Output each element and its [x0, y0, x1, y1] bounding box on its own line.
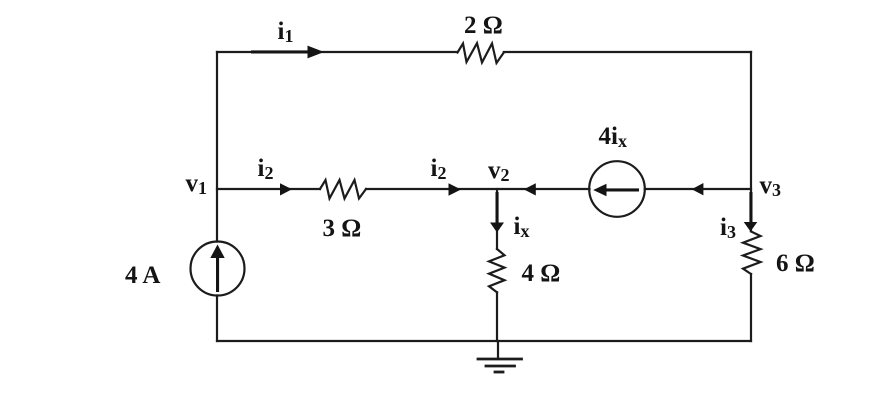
wire node v1 to 3-ohm resistor — [217, 188, 320, 190]
svg-text:i3: i3 — [720, 214, 736, 242]
wire 3-ohm to node v2 and on to source — [366, 188, 590, 190]
wire 6-ohm to bottom-right corner — [750, 274, 752, 341]
svg-text:4 Ω: 4 Ω — [522, 260, 561, 287]
independent current source 4A circle — [191, 242, 245, 296]
wire 4A source to bottom-left corner — [216, 296, 218, 342]
current arrow into v3 (points left) — [692, 183, 704, 195]
wire 2-ohm to top-right corner — [504, 51, 751, 53]
svg-text:6 Ω: 6 Ω — [776, 250, 815, 277]
svg-text:v1: v1 — [186, 170, 208, 198]
wire bottom horizontal — [217, 340, 751, 342]
svg-text:4ix: 4ix — [599, 123, 627, 151]
resistor R 3ohm zigzag — [320, 180, 366, 199]
resistor R 6ohm zigzag vertical — [743, 232, 761, 275]
ground stub — [497, 341, 499, 359]
arrow inside dependent source (points left) — [593, 184, 639, 197]
svg-text:i1: i1 — [278, 18, 294, 46]
svg-text:ix: ix — [514, 213, 530, 241]
wire left vertical top — [216, 52, 218, 242]
current arrow i2 into node v1 wire — [280, 183, 292, 195]
svg-text:4 A: 4 A — [125, 262, 160, 289]
dependent current source 4ix circle — [589, 161, 645, 217]
svg-text:i2: i2 — [258, 155, 274, 183]
wire source to node v3 — [645, 188, 751, 190]
svg-text:2 Ω: 2 Ω — [464, 12, 503, 39]
wire top-left to 2-ohm resistor — [217, 51, 458, 53]
arrow inside 4A source (points up) — [210, 245, 224, 293]
current arrow i2 after 3-ohm — [449, 183, 462, 195]
svg-text:v2: v2 — [488, 157, 510, 185]
current arrow i3 downward on right wire — [744, 192, 758, 232]
wire right vertical top — [750, 52, 752, 231]
current arrow i1 on top wire — [251, 46, 324, 59]
ground bars — [478, 359, 522, 372]
resistor R 2ohm zigzag — [458, 43, 504, 63]
current arrow into v2 from right (points left) — [524, 183, 536, 195]
current arrow ix downward on v2 branch — [490, 192, 504, 233]
wire 4-ohm to bottom — [496, 292, 498, 341]
svg-text:3 Ω: 3 Ω — [323, 215, 362, 242]
svg-text:v3: v3 — [760, 172, 782, 200]
resistor R 4ohm zigzag vertical — [489, 249, 505, 292]
svg-text:i2: i2 — [431, 155, 447, 183]
wire node v2 branch down — [496, 189, 498, 249]
